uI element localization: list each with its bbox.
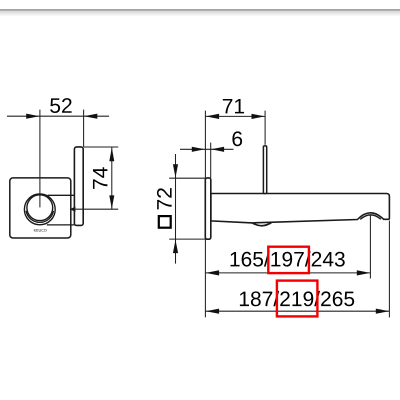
lever pin (stick) on top of spout bbox=[263, 146, 266, 194]
knob cylinder bottom tangent line bbox=[47, 224, 75, 226]
dimension 6: value label bbox=[232, 131, 242, 146]
dimension 74: bottom extension line bbox=[70, 208, 118, 210]
dimension 71: dimension line with inside arrows bbox=[206, 115, 265, 117]
dimension 74: top extension line bbox=[84, 146, 118, 148]
dimension 74: small arrow to plate edge bbox=[70, 207, 76, 212]
wall escutcheon (side view) bbox=[205, 178, 211, 239]
dimension square-72: value label 72 (rotated) bbox=[157, 188, 172, 209]
aerator extension line bbox=[369, 215, 371, 279]
dimension 74: dimension line bbox=[111, 148, 113, 210]
dimension square-72: bottom extension line bbox=[169, 238, 206, 240]
spout body outline bbox=[211, 194, 390, 223]
spout tip extension line bbox=[388, 221, 390, 318]
knob crescent arc bbox=[26, 211, 53, 222]
lever bar (flat handle, edge view) bbox=[74, 147, 83, 226]
dimension 52: extension line right bbox=[83, 110, 85, 147]
dimension square-72: square symbol bbox=[159, 216, 171, 228]
dimension 52: value label bbox=[50, 98, 71, 113]
dimension row 1 (to aerator): dimension line bbox=[206, 272, 371, 274]
knob outer circle bbox=[24, 194, 55, 225]
aerator bump inner arc bbox=[360, 215, 381, 220]
dimension 71: right extension line bbox=[264, 111, 266, 145]
spout underside belly arc bbox=[252, 223, 271, 226]
dimension 6: dimension line with outside arrows bbox=[180, 148, 234, 150]
wall extension line bbox=[204, 111, 206, 318]
dimension 71: value label bbox=[223, 99, 244, 113]
dimension row 2 (to spout tip): dimension line bbox=[206, 310, 390, 312]
red highlight box around 197 bbox=[268, 247, 309, 273]
dimension 52: dimension line with outside arrows bbox=[7, 115, 109, 117]
dimension row 2: value label 187/219/265 bbox=[240, 291, 354, 306]
dimension square-72: top extension line bbox=[169, 177, 206, 179]
dimension 74: value label (rotated) bbox=[93, 167, 107, 189]
KEUCO logo bbox=[34, 229, 47, 232]
dimension square-72: dimension line with outside arrows bbox=[175, 154, 177, 264]
escutcheon plate (square rosette) bbox=[10, 178, 71, 238]
knob inner face circle bbox=[27, 195, 53, 221]
knob cylinder top tangent line bbox=[48, 194, 75, 196]
dimension row 1: value label 165/197/243 bbox=[231, 251, 345, 266]
dimension 52: extension line left (centerline through knob) bbox=[39, 110, 41, 208]
dimension 6: right extension line bbox=[210, 143, 212, 178]
red highlight box around 219 bbox=[277, 281, 318, 317]
